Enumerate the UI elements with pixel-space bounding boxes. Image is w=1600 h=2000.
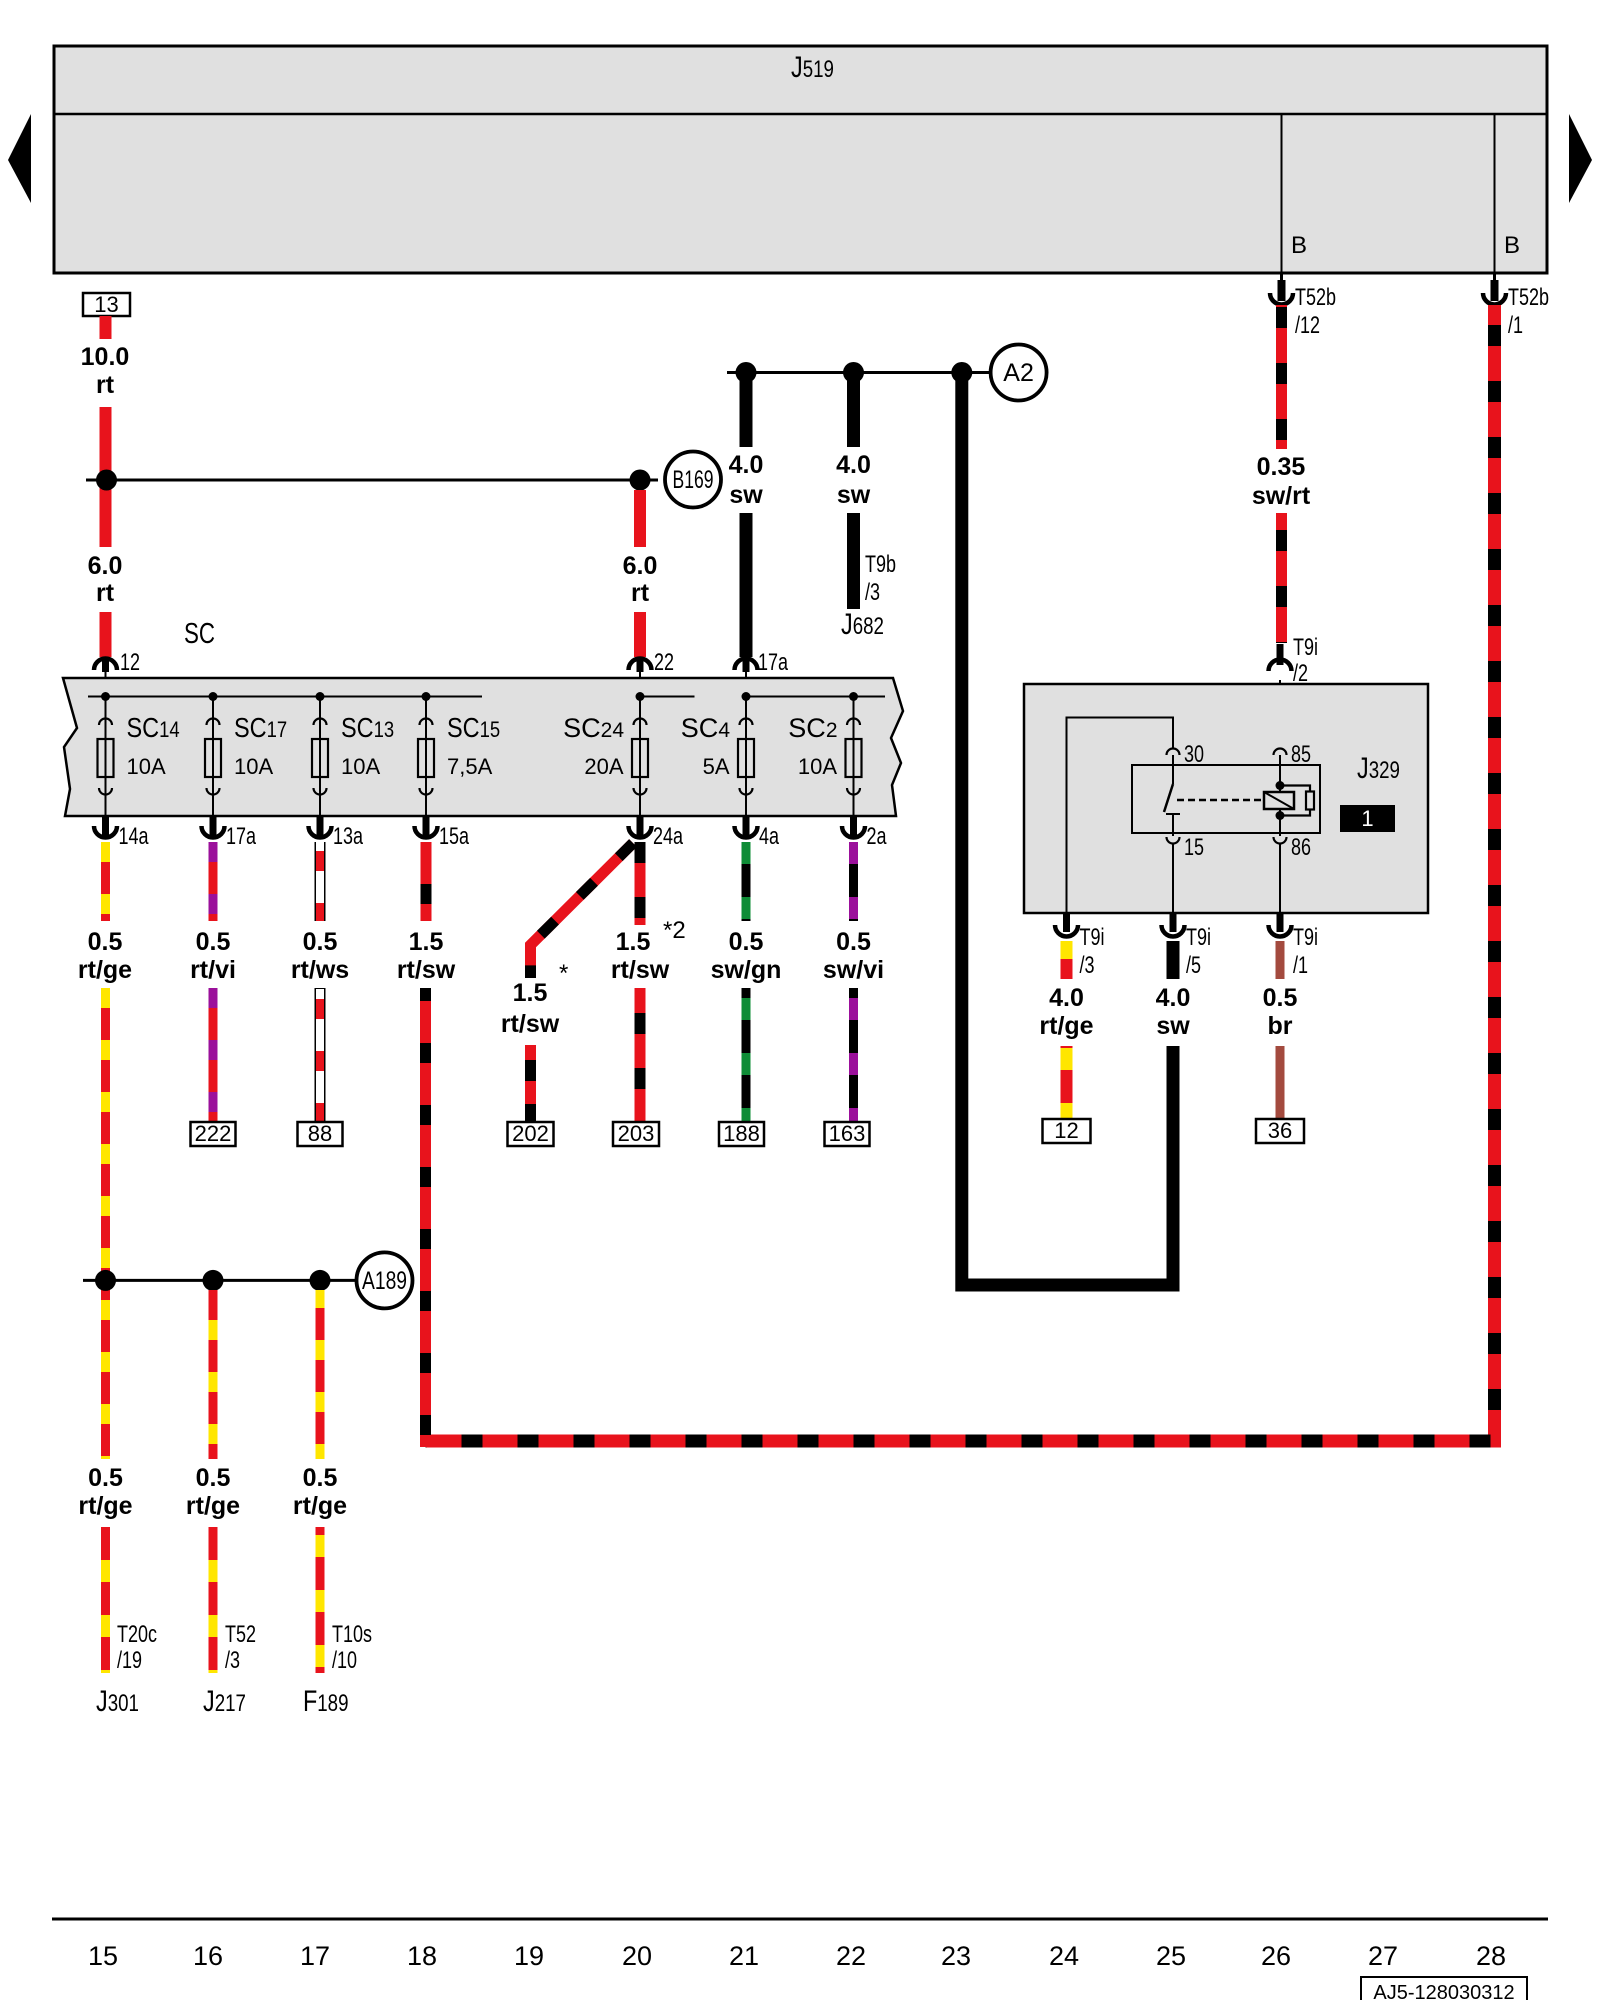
relay coil body bbox=[1264, 792, 1294, 809]
node symbol B169 bbox=[665, 452, 721, 508]
svg-text:4.0: 4.0 bbox=[1156, 984, 1191, 1012]
svg-text:86: 86 bbox=[1291, 834, 1311, 861]
svg-text:1.5: 1.5 bbox=[409, 928, 444, 956]
connector T9i/2 pin bbox=[1277, 644, 1284, 665]
wire 0.5 rt/ge to T52/3 bbox=[209, 1527, 218, 1673]
connector SC pin 12 plug bbox=[94, 659, 117, 671]
svg-text:sw: sw bbox=[1156, 1012, 1190, 1040]
svg-text:18: 18 bbox=[407, 1941, 437, 1971]
wire 0.5 sw/gn to terminal 188 bbox=[742, 988, 751, 1122]
svg-text:/19: /19 bbox=[117, 1647, 142, 1674]
svg-text:sw: sw bbox=[837, 481, 871, 509]
svg-text:1.5: 1.5 bbox=[513, 979, 548, 1007]
junction dot A2 at 17a wire bbox=[736, 362, 757, 383]
svg-text:rt/ws: rt/ws bbox=[291, 956, 349, 984]
connector SC pin 14a pin bbox=[102, 816, 109, 836]
relay internal wire 30 feed bbox=[1067, 718, 1174, 914]
wire 4.0 sw lower (to 17a) bbox=[740, 513, 753, 657]
fuse SC15 element wire bbox=[425, 697, 427, 817]
svg-text:/3: /3 bbox=[865, 579, 880, 606]
wire 1.5 rt/sw diagonal from 24a bbox=[531, 843, 634, 978]
svg-text:4.0: 4.0 bbox=[836, 451, 871, 479]
relay actuation dashed link bbox=[1177, 799, 1262, 802]
svg-text:17: 17 bbox=[300, 1941, 330, 1971]
connector T9i/3 socket bbox=[1055, 925, 1078, 937]
fuse SC15 top clip bbox=[420, 719, 433, 726]
svg-text:15: 15 bbox=[1184, 834, 1204, 861]
svg-text:14a: 14a bbox=[119, 823, 149, 850]
wire pin 22 into SC box bbox=[639, 670, 641, 697]
node B169 wire bbox=[86, 479, 658, 482]
svg-text:23: 23 bbox=[941, 1941, 971, 1971]
svg-text:10A: 10A bbox=[341, 754, 380, 779]
node A2 wire bbox=[727, 371, 990, 374]
wire 6.0 rt left lower bbox=[100, 612, 112, 657]
connector SC pin 17a pin bbox=[210, 816, 217, 836]
sheet number box bbox=[1361, 1977, 1527, 2000]
fuse SC17 element wire bbox=[212, 697, 214, 817]
svg-text:4.0: 4.0 bbox=[729, 451, 764, 479]
svg-text:T52b: T52b bbox=[1295, 284, 1336, 311]
svg-text:28: 28 bbox=[1476, 1941, 1506, 1971]
svg-text:J682: J682 bbox=[841, 608, 884, 641]
junction dot A189 middle bbox=[203, 1270, 224, 1291]
junction dot A189 right bbox=[310, 1270, 331, 1291]
svg-text:0.5: 0.5 bbox=[196, 928, 231, 956]
terminal 36 box bbox=[1256, 1119, 1304, 1143]
fuse SC13 element wire bbox=[319, 697, 321, 817]
node symbol A2 bbox=[991, 345, 1047, 401]
wire 4.0 sw upper (to J682) bbox=[847, 378, 860, 447]
connector SC pin 14a socket bbox=[94, 826, 117, 838]
svg-text:rt/sw: rt/sw bbox=[501, 1010, 560, 1038]
svg-text:10A: 10A bbox=[127, 754, 166, 779]
svg-text:J519: J519 bbox=[791, 51, 834, 84]
svg-text:22: 22 bbox=[836, 1941, 866, 1971]
terminal 88 box bbox=[298, 1122, 343, 1146]
svg-text:202: 202 bbox=[512, 1121, 549, 1146]
connector SC pin 24a pin bbox=[637, 816, 644, 836]
SC bus junction dot SC15 bbox=[422, 692, 431, 701]
svg-text:6.0: 6.0 bbox=[623, 552, 658, 580]
svg-text:222: 222 bbox=[195, 1121, 232, 1146]
svg-text:27: 27 bbox=[1368, 1941, 1398, 1971]
svg-text:rt/ge: rt/ge bbox=[1039, 1012, 1093, 1040]
svg-text:rt/sw: rt/sw bbox=[611, 956, 670, 984]
SC bus junction dot SC14 bbox=[101, 692, 110, 701]
relay coil junction dot top bbox=[1276, 781, 1285, 790]
wire 0.5 sw/vi below 2a bbox=[849, 842, 858, 921]
wire 0.5 rt/ws below 13a bbox=[315, 842, 326, 921]
svg-text:22: 22 bbox=[654, 649, 674, 676]
connector SC pin 22 pin bbox=[637, 659, 644, 672]
svg-text:188: 188 bbox=[723, 1121, 760, 1146]
terminal 12 box bbox=[1043, 1119, 1091, 1143]
svg-text:21: 21 bbox=[729, 1941, 759, 1971]
terminal 163 box bbox=[825, 1122, 870, 1146]
svg-text:85: 85 bbox=[1291, 741, 1311, 768]
connector T9i/5 pin bbox=[1170, 913, 1177, 932]
wire 0.35 sw/rt upper segment bbox=[1276, 305, 1287, 449]
connector SC pin 24a socket bbox=[629, 826, 652, 838]
wire 4.0 sw below T9i/5 bbox=[1167, 941, 1180, 979]
continuation arrow left bbox=[8, 114, 31, 203]
fuse SC13 bottom clip bbox=[314, 788, 327, 795]
terminal 203 box bbox=[613, 1122, 659, 1146]
connector SC pin 17a plug bbox=[735, 659, 758, 671]
svg-text:J301: J301 bbox=[96, 1685, 139, 1718]
fuse SC14 element wire bbox=[105, 697, 107, 817]
wire 1.5 rt/sw below 24a bbox=[635, 842, 646, 925]
svg-text:36: 36 bbox=[1268, 1118, 1292, 1143]
svg-text:0.35: 0.35 bbox=[1257, 453, 1306, 481]
node symbol A189 bbox=[357, 1252, 413, 1308]
svg-text:rt/vi: rt/vi bbox=[190, 956, 236, 984]
svg-text:12: 12 bbox=[1054, 1118, 1078, 1143]
junction dot A2 at J682 wire bbox=[843, 362, 864, 383]
terminal 13 box bbox=[83, 293, 130, 316]
terminal 188 box bbox=[719, 1122, 764, 1146]
svg-text:1: 1 bbox=[1361, 806, 1373, 831]
relay coil wire 85-86 bbox=[1279, 755, 1281, 793]
SC bus junction dot SC2 bbox=[849, 692, 858, 701]
connector SC pin 15a pin bbox=[423, 816, 430, 836]
svg-text:0.5: 0.5 bbox=[303, 1464, 338, 1492]
svg-text:SC14: SC14 bbox=[127, 712, 180, 743]
connector SC pin 2a pin bbox=[850, 816, 857, 836]
wire 4.0 rt/ge below T9i/3 bbox=[1061, 941, 1073, 979]
svg-text:7,5A: 7,5A bbox=[447, 754, 493, 779]
svg-text:24: 24 bbox=[1049, 1941, 1079, 1971]
wire T9i/2 into relay box bbox=[1279, 680, 1281, 752]
wire 0.5 br below T9i/1 bbox=[1276, 941, 1285, 979]
terminal 222 box bbox=[191, 1122, 236, 1146]
wire pin 12 into SC box bbox=[105, 670, 107, 697]
svg-text:F189: F189 bbox=[303, 1685, 349, 1718]
svg-text:/12: /12 bbox=[1295, 312, 1320, 339]
svg-text:*2: *2 bbox=[663, 917, 686, 944]
svg-text:J217: J217 bbox=[203, 1685, 246, 1718]
svg-text:/3: /3 bbox=[225, 1647, 240, 1674]
relay switch blade bbox=[1164, 784, 1173, 812]
wire 1.5 rt/sw from 15a to corner bbox=[420, 988, 431, 1447]
fuse SC15 body bbox=[418, 739, 434, 777]
connector T52b/1 pin bbox=[1493, 273, 1496, 282]
wire 0.5 rt/ge below 14a bbox=[101, 842, 110, 921]
wire 1.5 rt/sw to terminal 203 bbox=[635, 988, 646, 1122]
connector SC pin 4a socket bbox=[735, 826, 758, 838]
svg-text:SC17: SC17 bbox=[234, 712, 287, 743]
wire 0.5 rt/ws to terminal 88 bbox=[315, 988, 326, 1122]
connector T9i/3 pin bbox=[1063, 913, 1070, 932]
relay switch wire from 30 bbox=[1172, 755, 1174, 784]
fuse SC2 bottom clip bbox=[847, 788, 860, 795]
svg-text:B: B bbox=[1291, 232, 1307, 259]
wire 0.5 sw/gn below 4a bbox=[742, 842, 751, 921]
svg-text:19: 19 bbox=[514, 1941, 544, 1971]
fuse SC17 top clip bbox=[207, 719, 220, 726]
connector T52b/1 socket bbox=[1483, 293, 1506, 305]
wire 0.5 rt/vi to terminal 222 bbox=[209, 988, 218, 1122]
SC bus junction dot SC24 bbox=[636, 692, 645, 701]
connector SC pin 15a socket bbox=[415, 826, 438, 838]
SC bus junction dot SC17 bbox=[209, 692, 218, 701]
svg-text:26: 26 bbox=[1261, 1941, 1291, 1971]
svg-text:T9i: T9i bbox=[1186, 924, 1211, 951]
svg-text:2a: 2a bbox=[867, 823, 887, 850]
relay resistor branch bbox=[1280, 786, 1310, 816]
svg-text:/1: /1 bbox=[1293, 952, 1308, 979]
wire 0.5 rt/ge to T10s/10 bbox=[316, 1527, 325, 1673]
wire 0.5 rt/ge A189 to J217 upper bbox=[209, 1290, 218, 1459]
svg-text:T9i: T9i bbox=[1293, 634, 1318, 661]
junction dot A2 at relay wire bbox=[951, 362, 972, 383]
svg-text:br: br bbox=[1268, 1012, 1293, 1040]
fuse SC14 body bbox=[98, 739, 114, 777]
wire 0.5 sw/vi to terminal 163 bbox=[849, 988, 858, 1122]
J519 internal divider line bbox=[54, 113, 1547, 116]
continuation arrow right bbox=[1569, 114, 1592, 203]
svg-text:rt/ge: rt/ge bbox=[78, 1492, 132, 1520]
svg-text:rt/sw: rt/sw bbox=[397, 956, 456, 984]
wire 4.0 sw from A2 to relay terminal 15 bbox=[962, 378, 1173, 1285]
fuse SC13 body bbox=[312, 739, 328, 777]
svg-text:T9i: T9i bbox=[1080, 924, 1105, 951]
SC bus line segment 2 bbox=[640, 696, 695, 698]
svg-text:*: * bbox=[559, 960, 568, 987]
svg-text:T9i: T9i bbox=[1293, 924, 1318, 951]
fuse SC2 element wire bbox=[853, 697, 855, 817]
svg-text:88: 88 bbox=[308, 1121, 332, 1146]
fuse box SC outline bbox=[63, 678, 903, 816]
fuse SC14 top clip bbox=[99, 719, 112, 726]
svg-text:B: B bbox=[1504, 232, 1520, 259]
SC bus junction dot SC4 bbox=[742, 692, 751, 701]
svg-text:SC15: SC15 bbox=[447, 712, 500, 743]
relay J329 box bbox=[1024, 684, 1428, 913]
svg-text:4a: 4a bbox=[759, 823, 779, 850]
svg-text:rt/ge: rt/ge bbox=[186, 1492, 240, 1520]
svg-text:rt: rt bbox=[96, 579, 115, 607]
svg-text:T52: T52 bbox=[225, 1621, 256, 1648]
svg-text:A189: A189 bbox=[362, 1267, 407, 1295]
svg-text:17a: 17a bbox=[226, 823, 256, 850]
svg-text:25: 25 bbox=[1156, 1941, 1186, 1971]
svg-text:0.5: 0.5 bbox=[1263, 984, 1298, 1012]
svg-text:10A: 10A bbox=[234, 754, 273, 779]
relay coil junction dot bottom bbox=[1276, 811, 1285, 820]
wire inside J519 to terminal B (right) bbox=[1494, 114, 1496, 273]
wire 10.0 rt to node B169 bbox=[100, 407, 112, 547]
fuse SC24 top clip bbox=[634, 719, 647, 726]
svg-text:24a: 24a bbox=[653, 823, 683, 850]
connector SC pin 17a socket bbox=[202, 826, 225, 838]
svg-text:17a: 17a bbox=[758, 649, 788, 676]
svg-text:5A: 5A bbox=[703, 754, 730, 779]
svg-text:16: 16 bbox=[193, 1941, 223, 1971]
svg-text:rt/ge: rt/ge bbox=[293, 1492, 347, 1520]
junction dot A189 left bbox=[95, 1270, 116, 1291]
bottom track line bbox=[52, 1918, 1548, 1921]
relay switch wire to 15 bbox=[1172, 814, 1174, 836]
svg-text:sw/vi: sw/vi bbox=[823, 956, 884, 984]
svg-text:10A: 10A bbox=[798, 754, 837, 779]
junction dot right B169 bbox=[630, 470, 651, 491]
connector SC pin 12 pin bbox=[102, 659, 109, 672]
wire 0.5 rt/ge from 14a to A189 and J301 bbox=[101, 988, 110, 1459]
svg-text:0.5: 0.5 bbox=[196, 1464, 231, 1492]
connector SC pin 4a pin bbox=[743, 816, 750, 836]
wire 6.0 rt right lower bbox=[634, 612, 646, 657]
svg-text:B169: B169 bbox=[673, 466, 714, 494]
wire 0.5 rt/vi below 17a bbox=[209, 842, 218, 921]
SC bus line segment 3 bbox=[746, 696, 885, 698]
wire 4.0 rt/ge to terminal 12 bbox=[1061, 1046, 1073, 1119]
svg-text:sw/gn: sw/gn bbox=[711, 956, 782, 984]
svg-text:T9b: T9b bbox=[865, 551, 896, 578]
wire 0.5 rt/ge to T20c/19 bbox=[101, 1527, 110, 1673]
fuse SC17 bottom clip bbox=[207, 788, 220, 795]
fuse SC17 body bbox=[205, 739, 221, 777]
svg-text:0.5: 0.5 bbox=[88, 1464, 123, 1492]
svg-text:6.0: 6.0 bbox=[88, 552, 123, 580]
SC bus junction dot SC13 bbox=[316, 692, 325, 701]
fuse SC24 bottom clip bbox=[634, 788, 647, 795]
fuse SC24 element wire bbox=[639, 697, 641, 817]
svg-text:4.0: 4.0 bbox=[1049, 984, 1084, 1012]
svg-text:0.5: 0.5 bbox=[88, 928, 123, 956]
fuse SC13 top clip bbox=[314, 719, 327, 726]
svg-text:203: 203 bbox=[618, 1121, 655, 1146]
svg-text:A2: A2 bbox=[1003, 359, 1034, 387]
SC bus line segment 1 bbox=[88, 696, 482, 698]
svg-text:13a: 13a bbox=[333, 823, 363, 850]
svg-text:0.5: 0.5 bbox=[729, 928, 764, 956]
relay pin 15 clip bbox=[1167, 837, 1180, 844]
wire 4.0 sw upper (to 17a) bbox=[740, 378, 753, 447]
connector SC pin 13a socket bbox=[309, 826, 332, 838]
svg-text:rt: rt bbox=[631, 579, 650, 607]
svg-text:SC13: SC13 bbox=[341, 712, 394, 743]
svg-text:/3: /3 bbox=[1080, 952, 1095, 979]
svg-text:J329: J329 bbox=[1357, 752, 1400, 785]
terminal 202 box bbox=[508, 1122, 554, 1146]
svg-text:T10s: T10s bbox=[332, 1621, 372, 1648]
svg-text:SC: SC bbox=[184, 618, 215, 650]
svg-text:12: 12 bbox=[120, 649, 140, 676]
relay position tag 1 bbox=[1340, 805, 1395, 832]
relay element outline bbox=[1132, 765, 1320, 833]
relay pin 86 clip bbox=[1274, 837, 1287, 844]
relay pin 85 clip bbox=[1274, 749, 1287, 756]
fuse SC15 bottom clip bbox=[420, 788, 433, 795]
svg-text:/10: /10 bbox=[332, 1647, 357, 1674]
svg-text:10.0: 10.0 bbox=[81, 343, 130, 371]
connector SC pin 2a socket bbox=[842, 826, 865, 838]
fuse SC4 body bbox=[738, 739, 754, 777]
svg-text:rt/ge: rt/ge bbox=[78, 956, 132, 984]
wire inside J519 to terminal B (left) bbox=[1281, 114, 1283, 273]
connector T52b/12 socket bbox=[1270, 293, 1293, 305]
wire 1.5 rt/sw to terminal 202 bbox=[525, 1045, 536, 1122]
svg-text:0.5: 0.5 bbox=[303, 928, 338, 956]
svg-text:sw: sw bbox=[729, 481, 763, 509]
relay wire 15 to box bottom bbox=[1172, 843, 1174, 913]
svg-text:30: 30 bbox=[1184, 741, 1204, 768]
wire pin 17a into SC box bbox=[745, 670, 747, 697]
connector T52b/12 pin bbox=[1280, 273, 1283, 282]
fuse SC4 bottom clip bbox=[740, 788, 753, 795]
svg-text:rt: rt bbox=[96, 371, 115, 399]
wire 0.5 rt/ge A189 to F189 upper bbox=[316, 1290, 325, 1459]
svg-text:sw/rt: sw/rt bbox=[1252, 482, 1311, 510]
svg-text:20A: 20A bbox=[584, 754, 623, 779]
svg-text:0.5: 0.5 bbox=[836, 928, 871, 956]
wire 6.0 rt right upper bbox=[634, 490, 646, 547]
junction dot left B169 bbox=[96, 470, 117, 491]
fuse SC14 bottom clip bbox=[99, 788, 112, 795]
fuse SC2 top clip bbox=[847, 719, 860, 726]
node A189 wire bbox=[83, 1279, 355, 1282]
relay wire 86 to box bottom bbox=[1279, 843, 1281, 913]
relay switch contact bbox=[1166, 813, 1180, 815]
svg-text:AJ5-128030312: AJ5-128030312 bbox=[1373, 1982, 1514, 2000]
fuse SC4 top clip bbox=[740, 719, 753, 726]
connector T9i/1 socket bbox=[1269, 925, 1292, 937]
svg-text:/5: /5 bbox=[1186, 952, 1201, 979]
wire 0.35 sw/rt lower segment bbox=[1276, 513, 1287, 643]
wire 4.0 rt/sw from T52b/1 down and across bbox=[426, 305, 1495, 1441]
connector T9i/2 socket bbox=[1269, 660, 1292, 672]
svg-text:20: 20 bbox=[622, 1941, 652, 1971]
wire 0.5 br to terminal 36 bbox=[1276, 1046, 1285, 1119]
connector T9i/5 socket bbox=[1162, 925, 1185, 937]
svg-text:13: 13 bbox=[94, 292, 118, 317]
connector T9i/1 pin bbox=[1277, 913, 1284, 932]
control unit J519 box bbox=[54, 46, 1547, 273]
svg-text:15: 15 bbox=[88, 1941, 118, 1971]
relay pin 30 clip bbox=[1167, 749, 1180, 756]
connector SC pin 13a pin bbox=[317, 816, 324, 836]
connector SC pin 22 plug bbox=[629, 659, 652, 671]
relay resistor body bbox=[1306, 792, 1314, 810]
wire 1.5 rt/sw below 15a bbox=[421, 842, 432, 921]
fuse SC2 body bbox=[846, 739, 862, 777]
fuse SC4 element wire bbox=[745, 697, 747, 817]
svg-text:/1: /1 bbox=[1508, 312, 1523, 339]
wire 4.0 sw lower (to J682) bbox=[847, 513, 860, 609]
fuse SC24 body bbox=[632, 739, 648, 777]
svg-text:T52b: T52b bbox=[1508, 284, 1549, 311]
wire 10.0 rt stub bbox=[100, 316, 112, 339]
svg-text:1.5: 1.5 bbox=[616, 928, 651, 956]
svg-text:15a: 15a bbox=[439, 823, 469, 850]
svg-text:T20c: T20c bbox=[117, 1621, 157, 1648]
svg-text:163: 163 bbox=[829, 1121, 866, 1146]
connector SC pin 17a pin bbox=[743, 659, 750, 672]
